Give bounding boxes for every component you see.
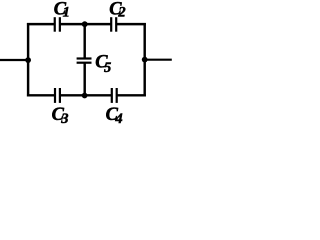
wire top-left segment bbox=[27, 23, 55, 25]
wire left vertical bbox=[27, 23, 29, 97]
wire right vertical bbox=[143, 23, 145, 97]
node junction right bbox=[142, 57, 148, 63]
capacitor C4 bbox=[106, 88, 123, 127]
svg-text:5: 5 bbox=[104, 60, 111, 76]
wire right terminal lead bbox=[145, 59, 172, 61]
node junction top-middle bbox=[82, 21, 88, 27]
wire top-middle segment bbox=[60, 23, 111, 25]
capacitor C5 bbox=[77, 53, 112, 77]
node junction left bbox=[25, 57, 31, 63]
wire bottom-middle segment bbox=[60, 94, 112, 96]
wire top-right segment bbox=[116, 23, 146, 25]
svg-text:3: 3 bbox=[60, 111, 68, 124]
svg-text:4: 4 bbox=[114, 111, 122, 124]
capacitor C1 bbox=[54, 0, 70, 32]
wire left terminal lead bbox=[0, 59, 28, 61]
node junction bottom-middle bbox=[82, 93, 88, 99]
wire bottom-left segment bbox=[27, 94, 55, 96]
wire middle vertical upper bbox=[83, 24, 85, 58]
capacitor C3 bbox=[52, 88, 69, 127]
capacitor C2 bbox=[109, 0, 125, 32]
svg-text:2: 2 bbox=[117, 4, 125, 20]
svg-text:1: 1 bbox=[63, 4, 70, 20]
wire bottom-right segment bbox=[117, 94, 146, 96]
wire middle vertical lower bbox=[83, 63, 85, 96]
